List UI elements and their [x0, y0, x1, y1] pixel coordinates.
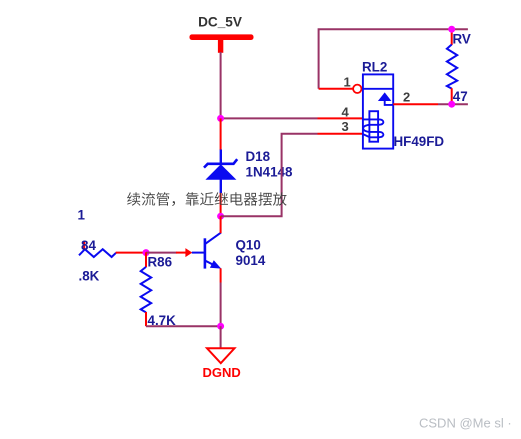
junction dot RV top [448, 26, 455, 33]
relay RL2 divider [363, 88, 393, 90]
wire: junction to relay pin3 (maroon L) [221, 134, 318, 216]
svg-text:Q10: Q10 [236, 238, 261, 253]
relay coil core [369, 111, 378, 142]
transistor Q10 emitter arrowhead [210, 260, 221, 268]
wire: junction to base arrow (maroon) [146, 252, 177, 254]
junction dot RV bottom [448, 101, 455, 108]
wire: R84 to junction (red) [116, 252, 146, 254]
svg-text:CSDN @Me sl ·: CSDN @Me sl · [419, 416, 512, 431]
svg-text:1: 1 [344, 75, 351, 90]
svg-text:1: 1 [78, 208, 86, 223]
wire: emitter node down to ground [220, 326, 222, 348]
resistor RV top red stub [451, 29, 453, 45]
wire: relay pin1 red lead [319, 88, 353, 90]
svg-text:HF49FD: HF49FD [394, 134, 445, 149]
diode D18 cathode bar with zener ticks [204, 159, 237, 167]
wire: relay pin4 red lead [318, 117, 363, 119]
relay RL2 body [363, 74, 393, 148]
wire: relay pin1 net (maroon up and over) [319, 29, 468, 89]
diode D18 bottom lead [220, 180, 222, 194]
wire: relay pin2 red lead [393, 103, 438, 105]
power DC_5V stub [218, 38, 223, 53]
svg-text:D18: D18 [246, 149, 271, 164]
resistor R84 zigzag [79, 249, 116, 257]
wire: emitter maroon down [220, 283, 222, 327]
svg-text:RL2: RL2 [362, 60, 387, 75]
wire: junction to relay pin4 (maroon part) [221, 117, 318, 119]
svg-text:1N4148: 1N4148 [246, 165, 293, 180]
wire: emitter red lead [220, 268, 222, 282]
transistor Q10 base lead [192, 252, 205, 254]
svg-text:R86: R86 [148, 254, 173, 269]
transistor Q10 collector diagonal [206, 233, 222, 244]
wire: red lead junction to diode cathode [220, 118, 222, 150]
wire: DC_5V down to junction [220, 52, 222, 118]
diode D18 top lead [220, 150, 222, 165]
resistor R86 zigzag [141, 267, 152, 313]
transistor Q10 base bar [204, 238, 207, 268]
svg-text:9014: 9014 [236, 253, 266, 268]
resistor R86 bottom red stub [145, 312, 147, 326]
svg-text:2: 2 [403, 90, 410, 105]
wire: collector red lead [220, 216, 222, 233]
svg-text:84: 84 [81, 238, 96, 253]
annotation text (freewheeling diode note) [127, 192, 287, 206]
resistor RV bottom red stub [451, 88, 453, 104]
svg-text:.8K: .8K [79, 269, 100, 284]
svg-text:DC_5V: DC_5V [198, 15, 242, 30]
wire: red lead diode anode to junction [220, 193, 222, 216]
diode D18 triangle [205, 164, 236, 180]
wire: R86 bottom to emitter node (maroon) [146, 325, 221, 327]
red direction arrow into base [185, 248, 192, 257]
wire: red segment before base arrow [176, 252, 187, 254]
relay armature arrow [378, 92, 392, 101]
junction dot below diode [217, 213, 224, 220]
junction dot at DC_5V rail [217, 115, 224, 122]
power DC_5V bar [190, 34, 254, 40]
wire: pin2 to RV (maroon) [438, 103, 468, 105]
resistor RV zigzag [447, 45, 457, 89]
svg-text:3: 3 [342, 119, 349, 134]
relay pin1 open circle [353, 85, 361, 93]
relay coil winding [363, 119, 384, 137]
wire: relay pin3 red lead [318, 133, 363, 135]
resistor R84 red stub [83, 242, 85, 251]
ground DGND triangle [207, 348, 235, 363]
svg-text:47: 47 [453, 89, 468, 104]
junction dot at base node [143, 249, 150, 256]
svg-text:DGND: DGND [203, 365, 241, 380]
resistor R86 top red stub [145, 252, 147, 267]
transistor Q10 emitter diagonal [206, 261, 216, 266]
svg-text:RV: RV [453, 32, 471, 47]
svg-text:4: 4 [342, 105, 350, 120]
junction dot at emitter node [217, 323, 224, 330]
